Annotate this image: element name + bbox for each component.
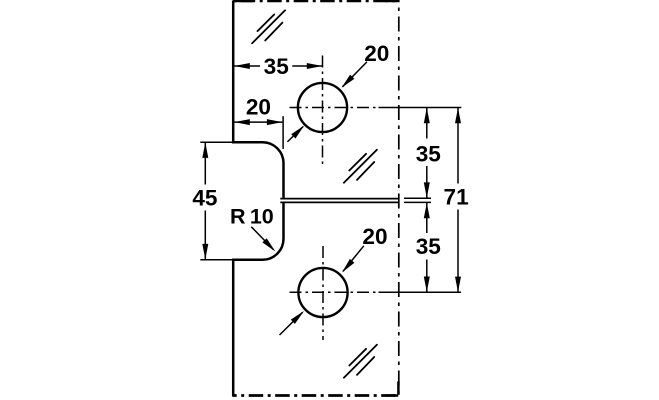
dimension 20 (notch width): extension line [282, 116, 284, 149]
top hole leader line [343, 62, 367, 87]
glass hatch symbol top [252, 10, 285, 43]
dimension 35 (right top): arrows [424, 108, 430, 124]
dimension 35 (right top): line [426, 108, 428, 198]
dimension 45 (notch height): extension lines [200, 141, 232, 143]
dimension 35 (top, hole to edge): line [234, 65, 322, 67]
R10 leader line [251, 227, 273, 250]
top hole leader arrowhead (upper) [339, 75, 354, 90]
dimension 35 (top): arrows [234, 63, 250, 69]
svg-text:45: 45 [192, 185, 217, 210]
bottom hole horizontal centerline [290, 291, 379, 293]
dimension 71: arrows [455, 108, 461, 124]
svg-text:35: 35 [416, 141, 441, 166]
bottom-right corner stub of panel [386, 382, 398, 396]
glass hatch symbol bottom [344, 345, 377, 378]
dimension 35 (right bottom): line [426, 203, 428, 292]
top hole center extension line (solid, to dimension lines) [379, 107, 462, 109]
R10 leader arrowhead [262, 238, 277, 253]
svg-text:35: 35 [264, 54, 289, 79]
dimension 45: line [204, 142, 206, 259]
svg-text:71: 71 [444, 184, 469, 209]
glass panel bottom edge (broken/dashed thick line) [233, 394, 398, 397]
dimension 35 (right bottom): arrows [424, 203, 430, 219]
svg-text:20: 20 [362, 224, 387, 249]
saw slot lower line [280, 201, 399, 203]
svg-text:R 10: R 10 [230, 205, 274, 229]
bottom hole vertical centerline [322, 246, 324, 340]
top hole horizontal centerline [290, 107, 379, 109]
bottom hole leader arrowhead (upper) [340, 259, 355, 275]
top hole leader lower arrowhead and tail [287, 127, 303, 142]
hole circle top [298, 83, 347, 132]
glass hatch symbol middle [344, 150, 377, 183]
glass panel top edge (broken/dashed thick line) [233, 0, 399, 2]
svg-text:20: 20 [246, 95, 271, 120]
top hole vertical centerline [322, 56, 324, 165]
svg-text:35: 35 [416, 234, 441, 259]
hole circle bottom [298, 268, 347, 317]
bottom hole leader lower arrowhead and tail [280, 312, 303, 335]
bottom hole center extension line (solid, to dimension lines) [379, 291, 462, 293]
dimension 20 (notch width): arrows [234, 119, 250, 125]
panel symmetry centerline (vertical dash-dot, right side) [398, 8, 400, 395]
svg-text:20: 20 [364, 41, 389, 66]
dimension 20 (notch width): line [234, 121, 282, 123]
saw slot upper line [280, 198, 399, 200]
bottom hole leader line [343, 246, 364, 272]
dimension 71 (overall): line [457, 108, 459, 292]
dimension 45: arrows [202, 142, 208, 158]
glass panel left edge (solid) and notch outline [233, 1, 283, 397]
slot extension lines (right, for 35/35 dimension) [404, 197, 431, 199]
